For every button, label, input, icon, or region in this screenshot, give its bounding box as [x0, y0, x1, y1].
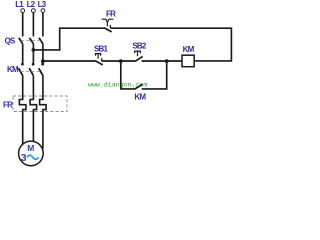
- svg-text:3: 3: [21, 152, 27, 164]
- svg-text:FR: FR: [106, 9, 116, 18]
- svg-text:KM: KM: [134, 93, 146, 102]
- wire SB2 to coil: [142, 60, 182, 62]
- relay FR NC contact seat tick: [109, 25, 111, 28]
- svg-text:L2: L2: [27, 0, 36, 9]
- relay FR heater element 3: [40, 99, 47, 112]
- svg-text:L1: L1: [15, 0, 24, 9]
- coil KM box: [182, 55, 194, 66]
- terminal circle L3: [41, 9, 45, 13]
- relay FR NC contact plunger: [106, 22, 108, 26]
- motor tilde wave: [27, 155, 38, 159]
- button SB1 cap: [96, 54, 101, 56]
- node tap on L2 junction dot: [32, 48, 36, 52]
- wire SB1 to SB2: [102, 60, 136, 62]
- wire motor lead 2: [32, 111, 34, 141]
- wire L2 mid: [32, 44, 34, 63]
- contactor KM pole 2 blade: [29, 68, 33, 75]
- wire L3 mid: [42, 44, 44, 63]
- wire control rail left: [43, 60, 96, 62]
- wire branch down left: [121, 61, 135, 89]
- wire L1 lower: [22, 76, 24, 100]
- contactor KM pole 1 terminal dot: [21, 63, 24, 66]
- wire control tap horizontal: [33, 28, 104, 50]
- switch QS pole 1 blade: [19, 38, 23, 44]
- button SB1 plunger: [97, 54, 99, 59]
- button SB2 cap: [135, 51, 141, 53]
- svg-text:M: M: [27, 143, 34, 153]
- wire L2 top: [32, 13, 34, 37]
- wire L3 top: [42, 13, 44, 37]
- switch QS pole 3 blade: [39, 38, 43, 44]
- contactor KM pole 1 blade: [19, 68, 23, 75]
- svg-text:SB1: SB1: [94, 44, 109, 53]
- contactor KM linkage dashed: [21, 71, 41, 73]
- wire L3 lower: [42, 76, 44, 100]
- node branch right junction dot: [165, 59, 169, 63]
- wire motor lead 3: [42, 111, 44, 149]
- contactor KM pole 3 terminal dot: [41, 63, 44, 66]
- contactor KM pole 3 blade: [39, 68, 43, 75]
- button SB2 NO blade: [135, 56, 142, 61]
- switch QS linkage dashed: [21, 39, 41, 41]
- wire top rail right: [110, 28, 231, 61]
- node tap on L3 junction dot: [41, 59, 45, 63]
- svg-text:SB2: SB2: [132, 41, 147, 50]
- terminal circle L2: [32, 9, 36, 13]
- relay FR heater element 1: [19, 99, 26, 112]
- wire motor lead 1: [22, 111, 24, 145]
- svg-text:FR: FR: [3, 101, 13, 110]
- relay FR NC contact trip symbol: [102, 19, 114, 22]
- node branch left junction dot: [119, 59, 123, 63]
- wire L2 lower: [32, 76, 34, 100]
- button SB1 NC blade: [95, 61, 102, 65]
- svg-text:KM: KM: [7, 65, 19, 74]
- contact KM aux NO blade: [135, 84, 143, 89]
- relay FR NC contact blade: [104, 28, 112, 32]
- terminal circle L1: [21, 9, 25, 13]
- switch QS pole 2 blade: [30, 38, 34, 44]
- wire branch right: [142, 61, 167, 89]
- motor M circle: [19, 141, 44, 166]
- wire L1 mid: [22, 44, 24, 63]
- contactor KM pole 2 terminal dot: [32, 63, 35, 66]
- button SB1 seat tick: [101, 58, 103, 61]
- svg-text:KM: KM: [183, 45, 195, 54]
- relay FR heater element 2: [30, 99, 36, 112]
- button SB2 plunger: [137, 52, 139, 57]
- wire L1 top: [22, 13, 24, 37]
- svg-text:QS: QS: [5, 36, 16, 45]
- relay FR heater dashed box: [13, 96, 67, 112]
- svg-text:L3: L3: [38, 0, 47, 9]
